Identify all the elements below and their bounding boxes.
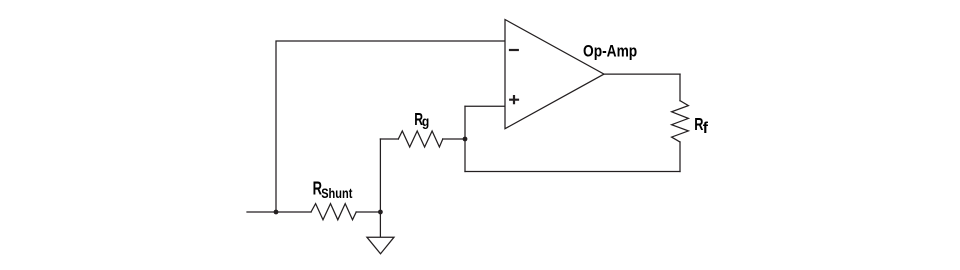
resistor RShunt — [311, 204, 356, 220]
svg-text:g: g — [422, 113, 429, 129]
wire: vertical from Rg corner down through junction — [379, 139, 381, 212]
ground — [367, 237, 394, 254]
wire: ground lead — [379, 212, 381, 237]
svg-text:f: f — [703, 120, 709, 137]
wire: feedback bottom run — [465, 171, 680, 173]
node: junction dot RShunt/ground — [378, 210, 383, 215]
wire: RShunt right lead to junction — [356, 211, 380, 213]
resistor Rg — [398, 131, 443, 147]
op-amp U1 — [505, 20, 604, 129]
resistor Rf — [672, 101, 689, 142]
op-amp plus sign — [509, 95, 519, 104]
svg-text:Shunt: Shunt — [321, 185, 352, 201]
wire: Rf bottom lead — [679, 142, 681, 172]
wire: bottom-left input lead — [247, 211, 311, 213]
node: junction dot Rg/noninverting — [463, 137, 468, 142]
wire: vertical at noninverting junction — [464, 106, 466, 171]
wire: Rf top lead — [679, 74, 681, 101]
node: junction dot left — [274, 210, 279, 215]
svg-text:Op-Amp: Op-Amp — [583, 42, 637, 60]
op-amp minus sign — [509, 49, 519, 51]
wire: Rg left lead — [380, 138, 398, 140]
wire: noninverting input into op-amp — [465, 105, 505, 107]
wire: inverting input horizontal from left branch to op-amp — [276, 41, 505, 212]
wire: Rg right lead to junction — [443, 138, 465, 140]
wire: op-amp output — [604, 73, 680, 75]
